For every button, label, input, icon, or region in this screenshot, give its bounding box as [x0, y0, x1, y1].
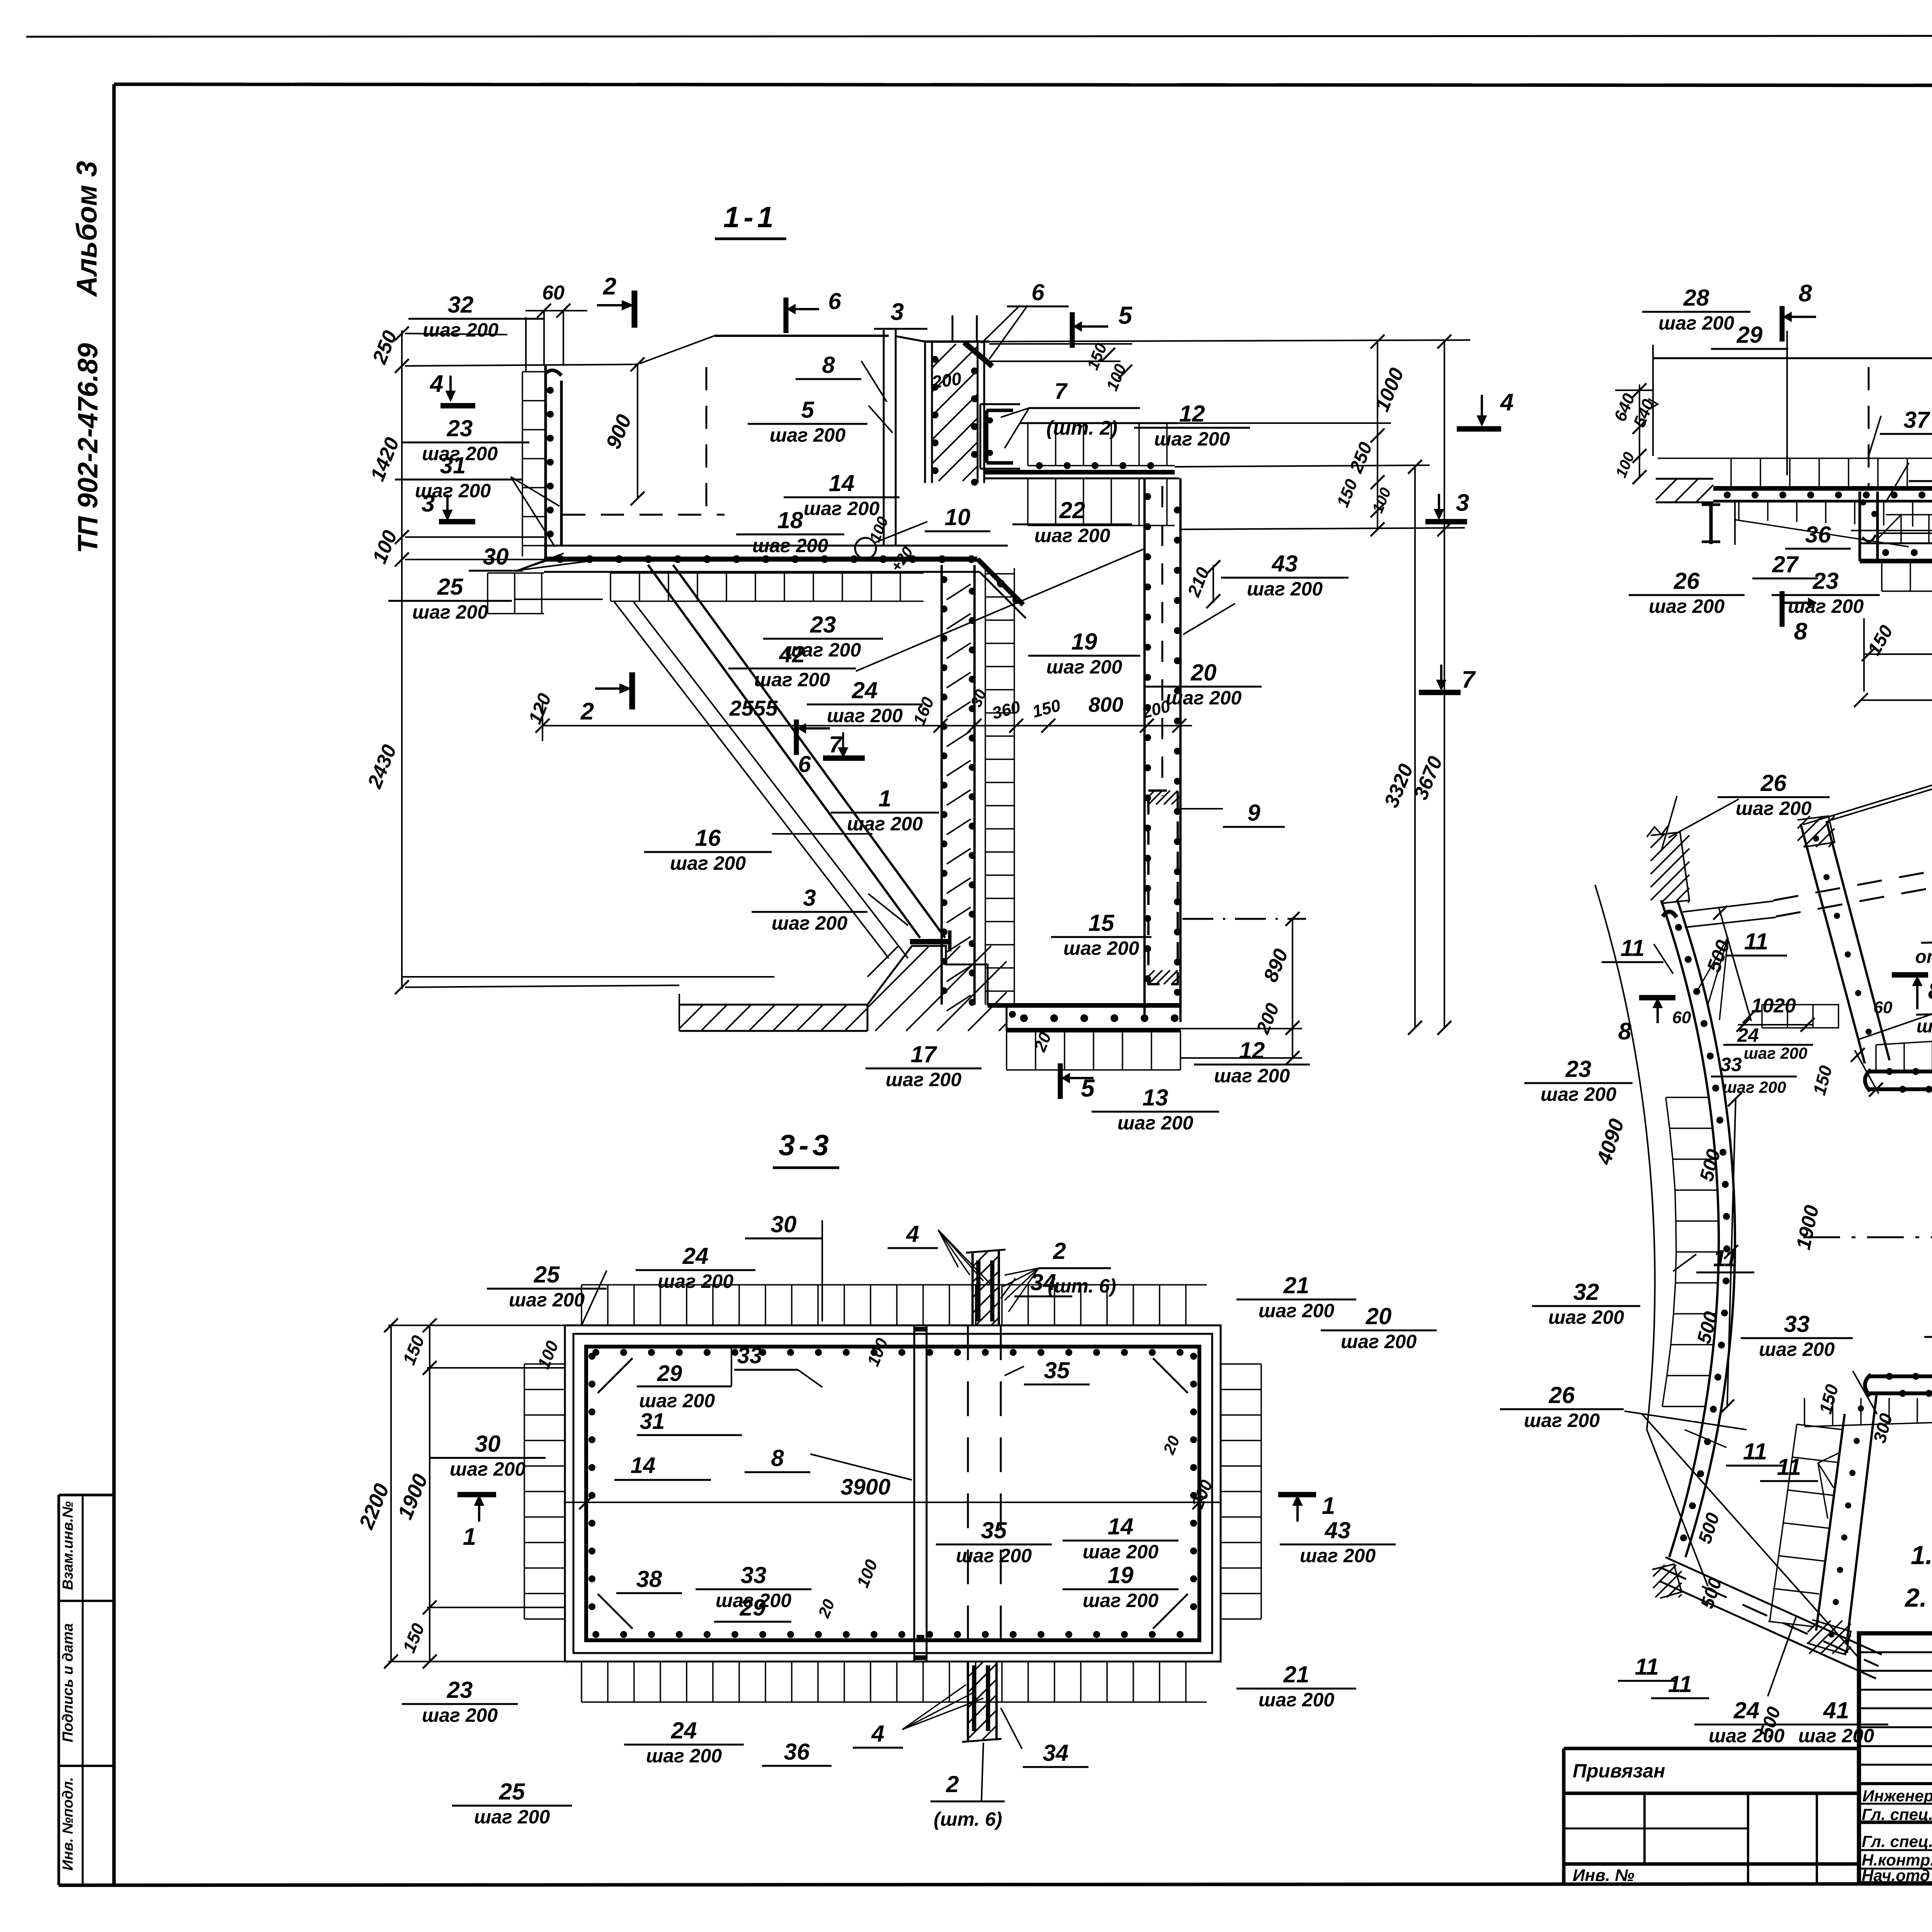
svg-text:24: 24 — [1737, 1024, 1759, 1046]
svg-text:Подпись и дата: Подпись и дата — [60, 1623, 76, 1742]
svg-text:шаг 200: шаг 200 — [1759, 1338, 1835, 1360]
svg-text:15: 15 — [1088, 910, 1115, 936]
svg-text:60: 60 — [1874, 998, 1893, 1017]
svg-text:шаг 200: шаг 200 — [509, 1289, 585, 1311]
svg-text:32: 32 — [1573, 1279, 1599, 1305]
svg-text:2: 2 — [946, 1771, 959, 1797]
svg-text:33: 33 — [1720, 1054, 1742, 1075]
svg-text:22: 22 — [1059, 497, 1085, 523]
svg-text:шаг 200: шаг 200 — [658, 1270, 733, 1292]
svg-text:3: 3 — [891, 299, 904, 325]
svg-text:4: 4 — [871, 1721, 884, 1747]
svg-text:20: 20 — [1190, 660, 1217, 685]
svg-text:11: 11 — [1713, 1245, 1737, 1271]
svg-text:10: 10 — [945, 504, 971, 530]
svg-text:шаг 200: шаг 200 — [1259, 1300, 1334, 1321]
svg-text:23: 23 — [1565, 1056, 1592, 1082]
svg-text:6: 6 — [798, 751, 811, 777]
svg-text:19: 19 — [1108, 1562, 1134, 1588]
svg-text:шаг 200: шаг 200 — [415, 480, 491, 502]
svg-text:14: 14 — [829, 470, 855, 496]
svg-text:шаг 200: шаг 200 — [956, 1545, 1032, 1566]
svg-text:24: 24 — [671, 1718, 697, 1743]
svg-text:Инженер: Инженер — [1862, 1787, 1932, 1805]
svg-text:2: 2 — [603, 273, 616, 300]
svg-text:14: 14 — [631, 1453, 656, 1478]
svg-text:43: 43 — [1325, 1517, 1351, 1543]
svg-text:33: 33 — [737, 1343, 762, 1368]
svg-text:12: 12 — [1179, 401, 1205, 427]
svg-text:13: 13 — [1143, 1085, 1168, 1111]
svg-text:29: 29 — [1736, 322, 1763, 348]
svg-text:11: 11 — [1621, 935, 1645, 961]
svg-text:1020: 1020 — [1751, 995, 1796, 1017]
svg-text:шаг 200: шаг 200 — [1723, 1078, 1786, 1096]
svg-text:30: 30 — [475, 1431, 501, 1457]
svg-text:(шт. 6): (шт. 6) — [1048, 1275, 1116, 1297]
svg-text:23: 23 — [447, 1677, 473, 1703]
svg-text:25: 25 — [534, 1262, 560, 1287]
svg-text:4: 4 — [906, 1221, 919, 1247]
svg-text:2555: 2555 — [729, 696, 778, 720]
svg-text:шаг 200: шаг 200 — [1736, 798, 1811, 819]
svg-text:31: 31 — [640, 1409, 665, 1434]
svg-text:Привязан: Привязан — [1573, 1760, 1665, 1782]
svg-text:ТП 902-2-476.89: ТП 902-2-476.89 — [73, 343, 104, 553]
svg-text:27: 27 — [1772, 551, 1799, 577]
svg-text:3: 3 — [1456, 490, 1469, 516]
svg-text:8: 8 — [1928, 978, 1932, 1004]
svg-text:шаг 200: шаг 200 — [1117, 1112, 1193, 1134]
svg-text:28: 28 — [1683, 285, 1709, 311]
svg-text:шаг 200: шаг 200 — [412, 601, 488, 623]
svg-text:1-1: 1-1 — [723, 201, 777, 234]
svg-text:шаг 200: шаг 200 — [1083, 1541, 1158, 1563]
svg-text:24: 24 — [852, 677, 878, 703]
svg-text:шаг 200: шаг 200 — [1034, 525, 1110, 546]
svg-text:23: 23 — [1813, 568, 1839, 594]
svg-text:18: 18 — [777, 507, 803, 533]
svg-text:32: 32 — [448, 292, 474, 318]
svg-text:25: 25 — [437, 574, 464, 600]
svg-text:11: 11 — [1777, 1454, 1801, 1480]
svg-text:шаг 200: шаг 200 — [1744, 1044, 1808, 1062]
svg-text:5: 5 — [801, 397, 815, 423]
svg-text:9: 9 — [1247, 800, 1260, 826]
svg-text:800: 800 — [1088, 693, 1123, 716]
svg-text:8: 8 — [771, 1445, 784, 1471]
svg-text:шаг 200: шаг 200 — [646, 1745, 722, 1767]
svg-text:3: 3 — [803, 885, 816, 911]
svg-text:21: 21 — [1283, 1272, 1310, 1298]
svg-text:26: 26 — [1760, 770, 1787, 796]
svg-text:шаг 200: шаг 200 — [827, 705, 903, 726]
svg-text:33: 33 — [741, 1562, 767, 1588]
svg-text:1: 1 — [878, 786, 891, 811]
svg-text:шаг 200: шаг 200 — [1083, 1590, 1158, 1611]
svg-text:24: 24 — [1733, 1697, 1760, 1723]
svg-text:шаг 200: шаг 200 — [1798, 1725, 1874, 1747]
svg-text:шаг 200: шаг 200 — [1046, 656, 1122, 678]
svg-text:26: 26 — [1673, 568, 1700, 594]
svg-text:30: 30 — [483, 544, 509, 570]
svg-text:шаг 200: шаг 200 — [1341, 1331, 1417, 1352]
svg-text:29: 29 — [657, 1361, 682, 1386]
svg-text:29: 29 — [740, 1595, 766, 1621]
svg-text:42: 42 — [779, 641, 805, 667]
svg-text:шаг 200: шаг 200 — [1524, 1410, 1600, 1431]
svg-text:шаг 200: шаг 200 — [770, 424, 845, 446]
svg-text:38: 38 — [636, 1566, 662, 1592]
svg-text:25: 25 — [499, 1779, 526, 1804]
svg-text:7: 7 — [1054, 379, 1068, 404]
svg-text:8: 8 — [1618, 1018, 1632, 1045]
svg-text:шаг 200: шаг 200 — [886, 1069, 961, 1090]
svg-text:2: 2 — [1053, 1238, 1066, 1264]
svg-text:шаг 200: шаг 200 — [1649, 595, 1725, 617]
svg-text:шаг 200: шаг 200 — [450, 1458, 526, 1480]
svg-text:200: 200 — [930, 368, 963, 392]
svg-text:19: 19 — [1071, 629, 1097, 655]
svg-text:2.: 2. — [1904, 1583, 1927, 1612]
svg-text:отм. оси: отм. оси — [1915, 947, 1932, 967]
svg-text:шаг 200: шаг 200 — [1247, 578, 1323, 600]
svg-text:8: 8 — [822, 352, 835, 378]
svg-text:14: 14 — [1108, 1514, 1134, 1539]
svg-text:8: 8 — [1799, 280, 1812, 307]
svg-text:34: 34 — [1031, 1269, 1056, 1295]
svg-text:26: 26 — [1549, 1382, 1575, 1408]
svg-text:шаг 200: шаг 200 — [1658, 312, 1734, 334]
svg-text:24: 24 — [682, 1243, 709, 1269]
svg-text:11: 11 — [1744, 929, 1768, 954]
svg-text:11: 11 — [1668, 1671, 1692, 1697]
svg-text:шаг 200: шаг 200 — [639, 1390, 715, 1412]
svg-text:7: 7 — [829, 731, 843, 757]
svg-text:4: 4 — [1500, 389, 1514, 416]
svg-text:шаг 200: шаг 200 — [1788, 595, 1864, 617]
svg-text:34: 34 — [1043, 1740, 1069, 1766]
svg-text:60: 60 — [1672, 1008, 1691, 1027]
svg-text:31: 31 — [440, 452, 466, 478]
svg-text:шаг 200: шаг 200 — [847, 813, 923, 835]
svg-text:33: 33 — [1784, 1311, 1810, 1337]
svg-text:23: 23 — [810, 612, 836, 638]
svg-text:шаг 200: шаг 200 — [1709, 1725, 1784, 1747]
svg-text:30: 30 — [771, 1211, 797, 1237]
svg-text:23: 23 — [447, 415, 473, 441]
svg-text:(шт. 6): (шт. 6) — [934, 1808, 1002, 1830]
svg-text:шаг 200: шаг 200 — [1154, 428, 1230, 450]
svg-text:Нач.отд: Нач.отд — [1862, 1866, 1930, 1884]
svg-text:5: 5 — [1118, 301, 1133, 329]
svg-text:шаг 200: шаг 200 — [474, 1806, 550, 1828]
svg-text:6: 6 — [828, 288, 841, 314]
svg-text:60: 60 — [542, 282, 565, 304]
svg-text:1: 1 — [1322, 1493, 1335, 1519]
svg-text:шаг 200: шаг 200 — [423, 319, 498, 341]
svg-text:Взам.инв.№: Взам.инв.№ — [60, 1501, 76, 1590]
svg-text:(шт. 2): (шт. 2) — [1046, 417, 1117, 439]
svg-text:1: 1 — [463, 1524, 476, 1550]
svg-text:Гл. спец.: Гл. спец. — [1862, 1832, 1932, 1850]
svg-text:Альбом 3: Альбом 3 — [71, 161, 103, 298]
svg-text:6: 6 — [1031, 279, 1044, 305]
svg-text:шаг 200: шаг 200 — [1214, 1065, 1290, 1087]
svg-text:шаг 200: шаг 200 — [772, 912, 847, 934]
svg-text:43: 43 — [1272, 551, 1298, 577]
svg-text:шаг 200: шаг 200 — [804, 498, 879, 519]
svg-text:21: 21 — [1283, 1662, 1310, 1687]
svg-text:4: 4 — [429, 371, 443, 397]
svg-text:7: 7 — [1462, 667, 1476, 693]
svg-text:16: 16 — [695, 825, 721, 851]
svg-text:2: 2 — [580, 698, 594, 725]
svg-text:36: 36 — [1805, 522, 1831, 548]
svg-text:шаг 200: шаг 200 — [1063, 937, 1139, 959]
svg-text:11: 11 — [1635, 1654, 1659, 1680]
svg-text:20: 20 — [1366, 1303, 1392, 1329]
svg-text:шаг 200: шаг 200 — [1548, 1306, 1624, 1328]
svg-text:8: 8 — [1794, 618, 1808, 645]
svg-text:11: 11 — [1743, 1439, 1767, 1464]
svg-text:шаг 200: шаг 200 — [1166, 687, 1242, 709]
svg-text:35: 35 — [1044, 1357, 1070, 1383]
svg-text:шаг 200: шаг 200 — [752, 535, 828, 556]
svg-text:Гл. спец.: Гл. спец. — [1862, 1805, 1932, 1823]
svg-text:3-3: 3-3 — [779, 1129, 833, 1162]
svg-text:Инв. №подл.: Инв. №подл. — [60, 1777, 76, 1871]
svg-text:шаг 200: шаг 200 — [670, 852, 746, 874]
svg-text:Инв. №: Инв. № — [1573, 1866, 1634, 1885]
svg-text:35: 35 — [981, 1517, 1007, 1543]
svg-text:3900: 3900 — [840, 1475, 890, 1500]
svg-text:шаг 200: шаг 200 — [1917, 1016, 1932, 1037]
svg-text:шаг 200: шаг 200 — [422, 1704, 498, 1726]
svg-text:12: 12 — [1239, 1037, 1265, 1063]
svg-text:шаг 200: шаг 200 — [1259, 1689, 1334, 1711]
svg-text:17: 17 — [911, 1041, 937, 1067]
svg-text:шаг 200: шаг 200 — [1541, 1083, 1616, 1105]
svg-text:36: 36 — [784, 1739, 810, 1765]
svg-text:1.: 1. — [1911, 1541, 1932, 1570]
svg-text:41: 41 — [1823, 1697, 1849, 1723]
svg-text:шаг 200: шаг 200 — [754, 669, 830, 690]
svg-text:шаг 200: шаг 200 — [1300, 1545, 1376, 1566]
svg-text:37: 37 — [1904, 407, 1930, 433]
